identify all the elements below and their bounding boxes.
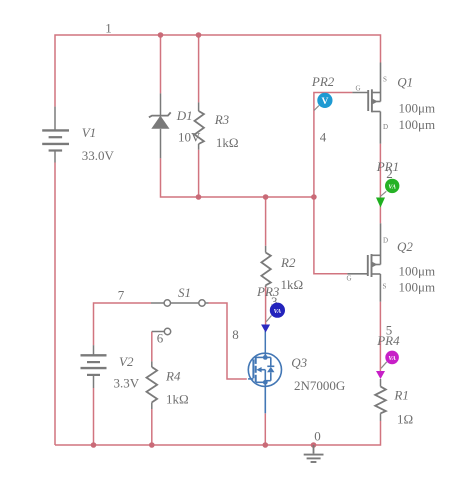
svg-text:1kΩ: 1kΩ	[281, 277, 304, 292]
svg-text:D: D	[383, 237, 388, 245]
svg-text:3.3V: 3.3V	[114, 376, 140, 391]
junction bottom-Q3	[263, 442, 269, 448]
svg-text:R2: R2	[280, 255, 296, 270]
svg-text:2: 2	[386, 166, 393, 181]
wire D1 top	[160, 35, 162, 93]
resistor R3	[195, 102, 204, 149]
svg-text:0: 0	[314, 429, 321, 444]
wire node 8 switch to Q3 gate	[209, 303, 247, 379]
wire left rail lower	[54, 163, 56, 446]
svg-text:4: 4	[320, 130, 327, 145]
svg-text:VA: VA	[388, 185, 396, 191]
wire R2 top	[265, 197, 267, 246]
svg-text:R1: R1	[393, 388, 408, 403]
MOSFET Q3	[248, 353, 281, 413]
probe PR4	[381, 351, 399, 369]
svg-text:2N7000G: 2N7000G	[294, 378, 345, 393]
junction bottom-R4	[149, 442, 155, 448]
wire Q1 drain to Q2 node 2	[379, 144, 381, 224]
switch S1	[151, 300, 209, 335]
probe PR3	[266, 303, 285, 322]
svg-text:1kΩ: 1kΩ	[166, 391, 189, 406]
svg-text:S: S	[383, 76, 387, 84]
svg-text:PR3: PR3	[256, 284, 280, 299]
svg-text:S1: S1	[178, 285, 191, 300]
zener diode D1	[149, 93, 171, 158]
Q3 source dot	[263, 380, 268, 385]
wire Q3 source bottom	[264, 413, 266, 445]
svg-text:1Ω: 1Ω	[397, 412, 413, 427]
svg-text:R4: R4	[165, 369, 181, 384]
MOSFET Q2	[347, 223, 380, 301]
Q3 drain dot	[263, 355, 268, 360]
wire Q2 source to R1 node 5	[379, 302, 381, 372]
svg-text:7: 7	[118, 288, 125, 303]
junction node1-R3	[196, 32, 202, 38]
junction node1-D1	[158, 32, 164, 38]
MOSFET Q1	[352, 63, 380, 144]
probe PR4 arrow	[376, 371, 385, 379]
wire R3 top	[198, 35, 200, 102]
wire PR2 vertical	[314, 93, 353, 274]
resistor R1	[375, 379, 386, 421]
Q3 body diode triangle	[267, 367, 274, 373]
svg-text:6: 6	[157, 331, 164, 346]
svg-text:VA: VA	[274, 309, 282, 315]
svg-text:G: G	[347, 275, 352, 283]
probe PR3 arrow	[261, 325, 270, 333]
svg-text:8: 8	[232, 327, 239, 342]
svg-text:100μm: 100μm	[399, 264, 436, 279]
svg-text:PR2: PR2	[311, 74, 335, 89]
junction mid-R2	[263, 194, 269, 200]
battery V1	[42, 107, 69, 163]
svg-text:Q1: Q1	[397, 75, 413, 90]
wire R2 bottom node 3	[265, 286, 267, 326]
probe PR2	[314, 93, 333, 111]
resistor R2	[261, 246, 270, 287]
svg-text:Q3: Q3	[291, 355, 307, 370]
svg-text:V1: V1	[82, 125, 96, 140]
svg-text:D1: D1	[176, 108, 193, 123]
wire R4 bottom	[151, 409, 153, 445]
wire R3 bottom	[198, 150, 200, 197]
svg-text:VA: VA	[388, 356, 396, 362]
wire V2 bottom	[93, 388, 95, 445]
Q2 body arrow	[372, 262, 378, 268]
junction mid-PR2	[311, 194, 317, 200]
probe PR1 arrow	[376, 198, 385, 208]
wire bottom rail node 0	[55, 421, 381, 445]
svg-text:33.0V: 33.0V	[82, 148, 115, 163]
junction mid-R3	[196, 194, 202, 200]
wire top rail node 1	[55, 35, 381, 107]
ground	[304, 445, 324, 462]
Q3 arrow	[256, 367, 261, 372]
resistor R4	[147, 361, 158, 409]
svg-text:S: S	[383, 283, 387, 291]
Q1 body arrow	[372, 99, 378, 105]
svg-text:100μm: 100μm	[399, 280, 436, 295]
svg-text:1kΩ: 1kΩ	[216, 135, 239, 150]
svg-text:G: G	[356, 85, 361, 93]
junction bottom-ground	[311, 442, 317, 448]
svg-text:R3: R3	[214, 112, 230, 127]
wire node 6 to R4	[151, 332, 153, 362]
svg-text:1: 1	[105, 21, 112, 36]
svg-text:5: 5	[386, 323, 393, 338]
wire mid rail	[161, 158, 314, 197]
svg-text:100μm: 100μm	[399, 101, 436, 116]
probe PR1	[380, 179, 400, 197]
junction bottom-V2	[91, 442, 97, 448]
svg-text:V: V	[321, 97, 328, 107]
wire node 7	[94, 303, 152, 345]
svg-text:Q2: Q2	[397, 239, 413, 254]
wire node 3 blue segment to Q3	[264, 331, 266, 354]
svg-text:V2: V2	[119, 354, 134, 369]
svg-text:D: D	[383, 123, 388, 131]
svg-text:100μm: 100μm	[399, 117, 436, 132]
battery V2	[81, 345, 107, 388]
